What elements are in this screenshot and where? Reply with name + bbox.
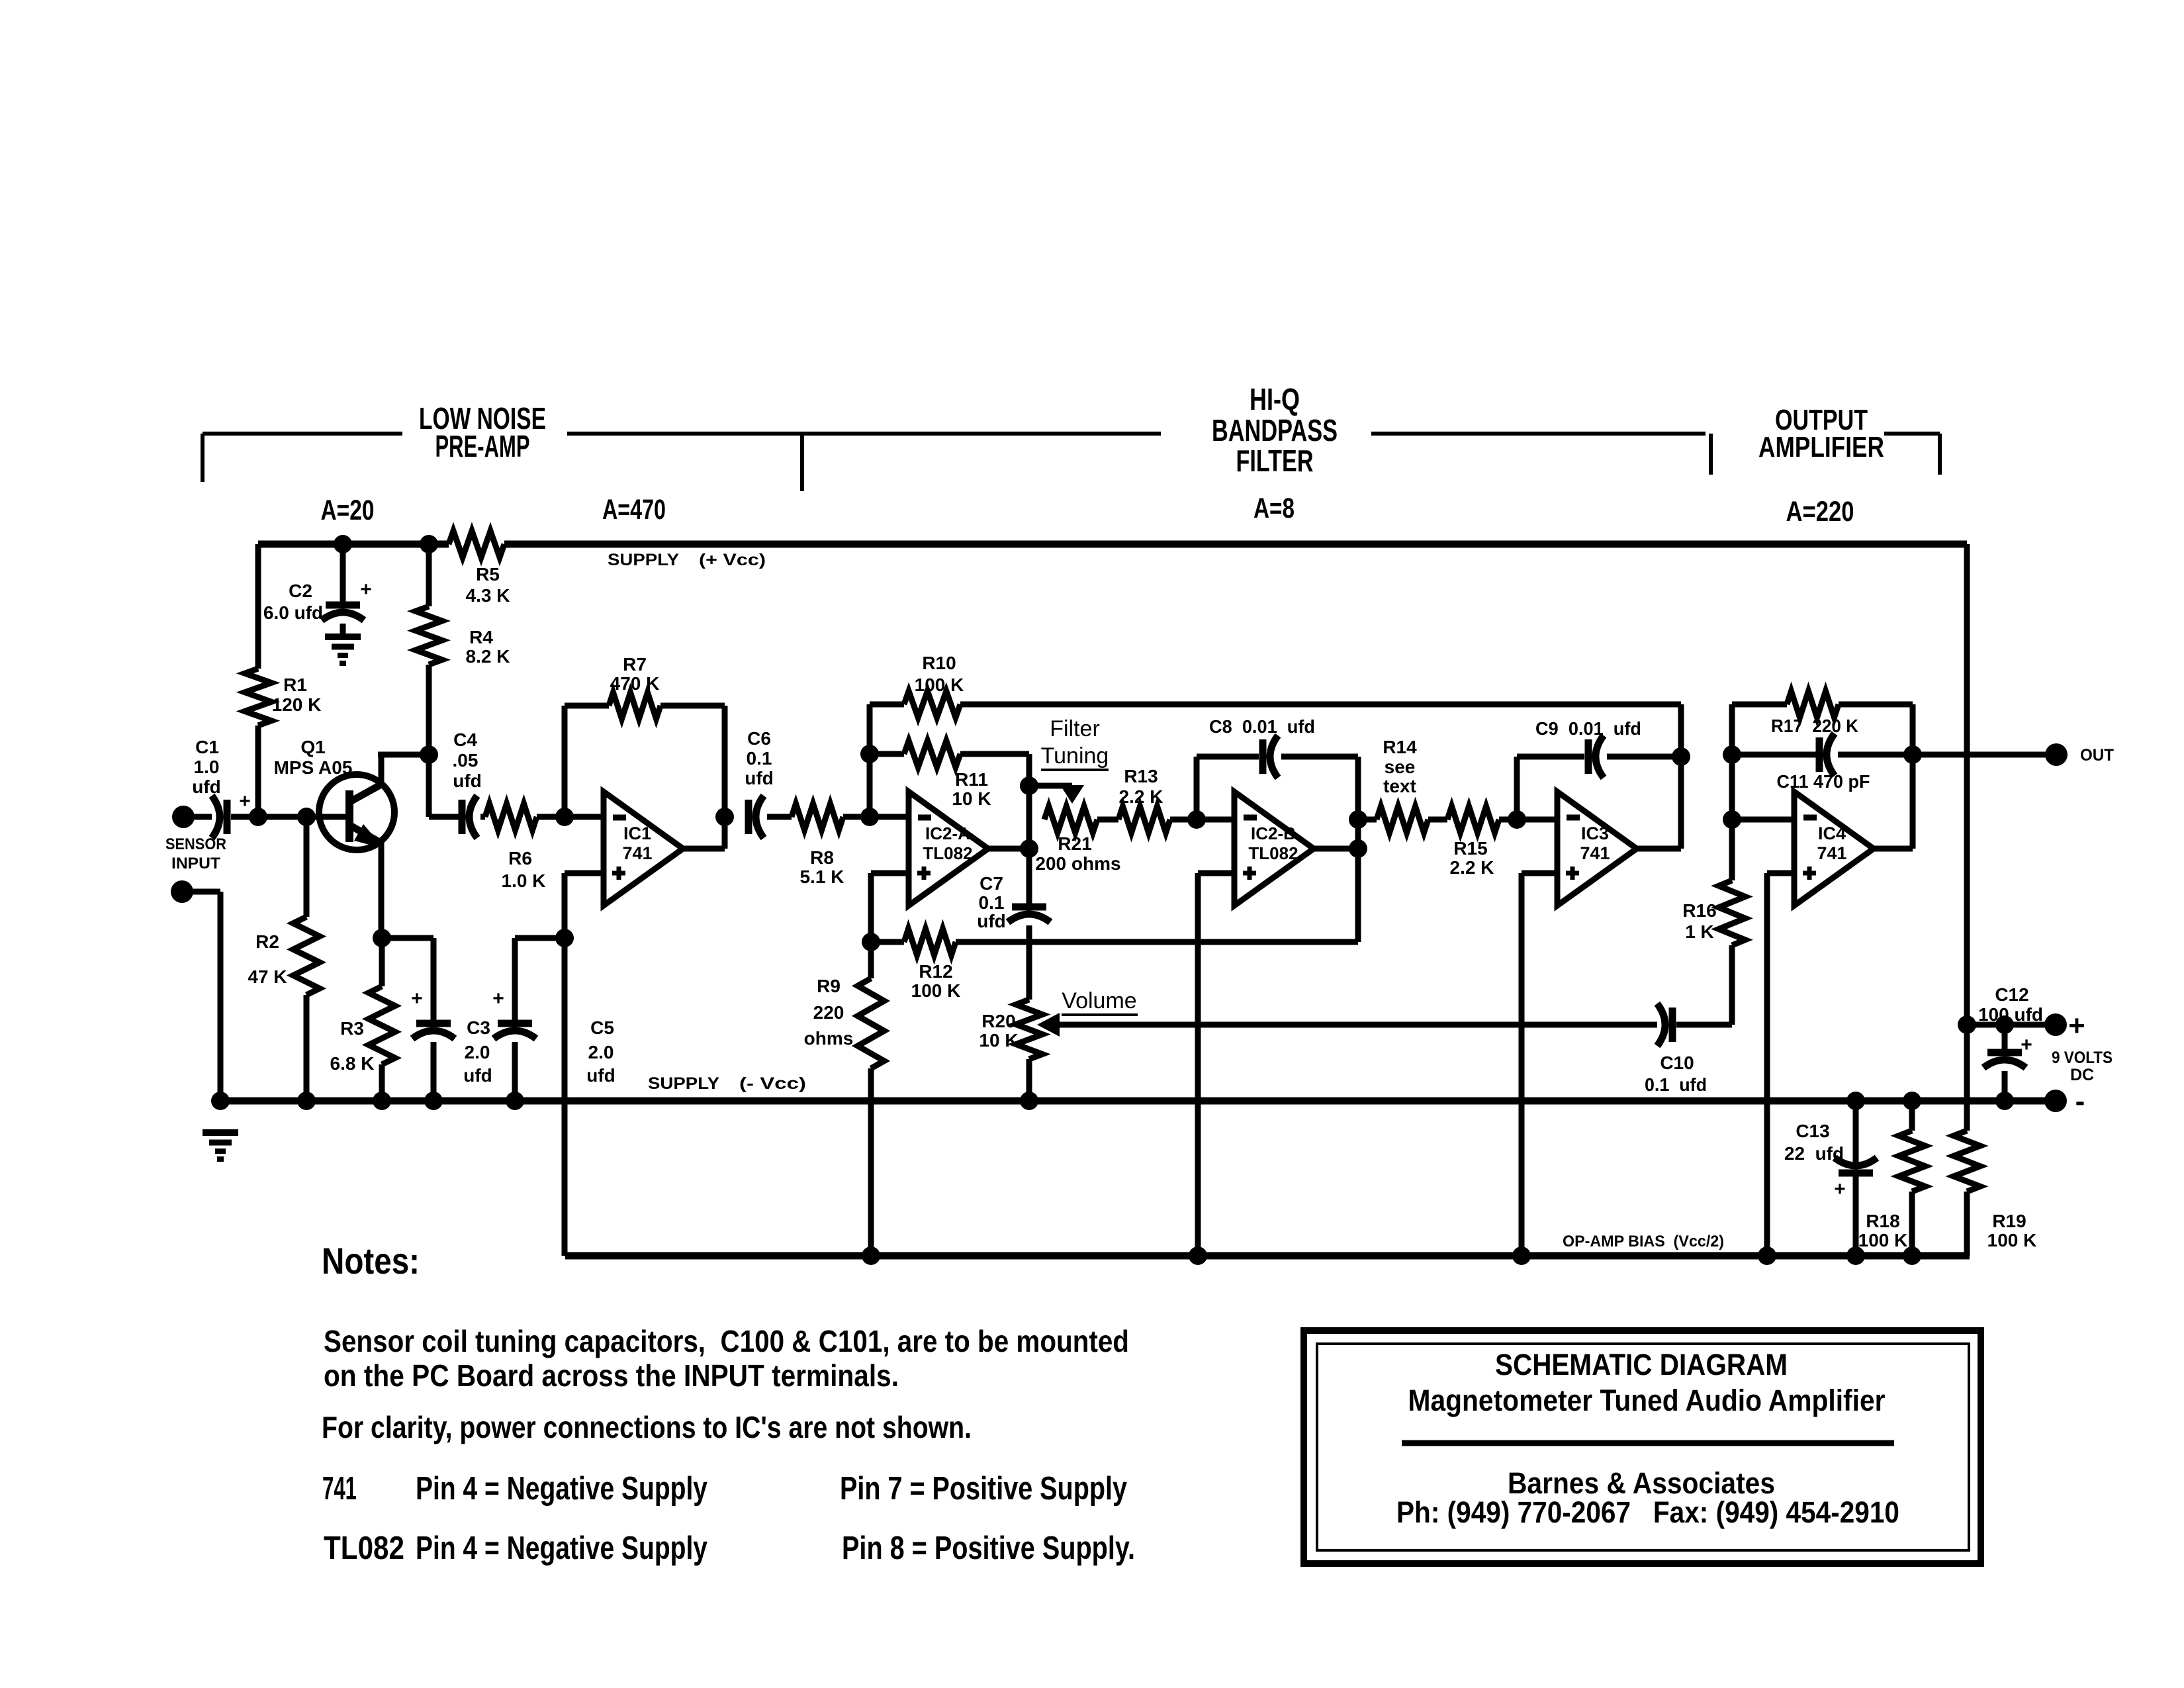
wire IC2-B output [1314,846,1358,852]
svg-text:9 VOLTS: 9 VOLTS [2052,1049,2113,1067]
svg-text:Ph: (949) 770-2067 Fax: (949: Ph: (949) 770-2067 Fax: (949) 454-2910 [1396,1495,1899,1529]
underline Tuning [1041,769,1109,771]
transistor Q1 collector lead [351,784,381,801]
svg-text:C5: C5 [590,1017,614,1038]
svg-text:C1: C1 [195,737,219,757]
wire C6 to R8 [767,814,792,820]
resistor R6 [485,804,537,830]
svg-text:R13: R13 [1124,766,1158,786]
wire C8 loop right vertical [1355,757,1361,942]
wire volume wiper line [1058,1022,1657,1028]
svg-text:SCHEMATIC DIAGRAM: SCHEMATIC DIAGRAM [1495,1348,1788,1382]
resistor R14 [1377,806,1428,833]
svg-text:text: text [1383,776,1416,796]
op-amp IC4 [1794,792,1874,906]
svg-text:ufd: ufd [453,771,482,791]
wire C2 to ground [340,624,346,637]
wire IC2-A + vertical [868,873,874,942]
capacitor C13 [1839,1170,1873,1177]
resistor R10 [904,691,960,718]
svg-text:470 K: 470 K [610,673,660,694]
section bracket line (pre-amp to filter) [567,432,1161,436]
wire IC2-A noninverting input [871,870,909,876]
op-amp IC3 [1557,792,1637,906]
wire IC4 output [1874,846,1913,852]
svg-text:ufd: ufd [586,1065,615,1086]
junction node collector/R4/C4 [420,745,438,764]
wire R12 line left [871,939,904,945]
svg-text:A=470: A=470 [602,494,666,526]
wire R7 loop top right [660,703,725,709]
svg-text:5.1 K: 5.1 K [800,867,844,887]
capacitor C5 [498,1020,532,1027]
svg-text:Volume: Volume [1062,988,1136,1013]
svg-text:R3: R3 [340,1018,364,1039]
svg-text:Pin 4 = Negative Supply: Pin 4 = Negative Supply [416,1471,707,1507]
resistor R11 [904,741,960,767]
wire IC4 + down to bias [1764,873,1770,1256]
title divider line [1402,1440,1894,1446]
transistor Q1 emitter lead [351,826,381,843]
junction dot R9 at bias rail [862,1246,880,1265]
svg-text:ufd: ufd [745,768,774,788]
resistor R19 [1954,1131,1980,1192]
wire R1 to input line [255,726,261,817]
resistor R13 [1118,806,1170,833]
svg-text:C13: C13 [1796,1121,1829,1141]
section bracket right tick [1938,434,1942,475]
svg-text:INPUT: INPUT [171,855,220,872]
capacitor C3 bottom wire [431,1042,437,1101]
capacitor C4 [459,800,466,834]
junction dot R3 at -rail [373,1092,391,1110]
resistor R3 bottom wire [379,1064,385,1101]
svg-text:-: - [2075,1085,2085,1117]
svg-text:6.8 K: 6.8 K [330,1053,375,1074]
wire op-amp bias rail [565,1252,1970,1260]
svg-text:R8: R8 [810,847,834,868]
svg-text:1.0: 1.0 [194,757,220,777]
wire R16 top lead [1729,820,1735,880]
svg-text:100 K: 100 K [1987,1230,2037,1250]
svg-text:+: + [1834,1178,1846,1200]
wire R17 loop left vertical [1729,704,1735,820]
svg-text:TL082: TL082 [923,843,972,863]
junction node R21 wiper tap [1020,776,1038,795]
svg-text:C8 0.01 ufd: C8 0.01 ufd [1209,716,1315,737]
svg-text:R17 220 K: R17 220 K [1771,716,1858,736]
wire C2 branch [340,544,346,602]
wire collector to C4 node [378,752,429,758]
wire battery + line [1967,1022,2056,1028]
wire R8 to IC2-A inv node [843,814,909,820]
wire IC2-A output vertical [1026,754,1032,904]
wire C4 to R6 [480,814,485,820]
svg-text:(+ Vcc): (+ Vcc) [699,551,766,569]
wire R6 to IC1 inv node [537,814,604,820]
junction node IC2-A inverting input [860,808,879,826]
resistor R9 [858,978,884,1068]
svg-text:Pin 8 = Positive Supply.: Pin 8 = Positive Supply. [842,1530,1135,1566]
wire R7 loop left vertical [562,706,568,817]
op-amp IC2-B [1234,792,1314,906]
wire R17 loop top right [1839,702,1913,708]
svg-text:+: + [492,988,504,1009]
svg-text:R12: R12 [919,961,952,982]
wire emitter node to C3 [382,935,433,941]
resistor R1 [245,669,271,726]
node SENSOR INPUT terminal 1 [172,806,195,828]
capacitor C5 bottom wire [512,1042,518,1101]
wire C9 line right [1607,754,1681,760]
wire C9 line left [1517,754,1584,760]
svg-text:741: 741 [322,1471,357,1507]
junction node IC3 inverting input [1508,810,1526,829]
svg-text:on the PC Board across the INP: on the PC Board across the INPUT termina… [324,1358,899,1393]
junction node IC1 inverting input [555,808,574,826]
svg-text:220: 220 [813,1002,844,1023]
svg-text:FILTER: FILTER [1236,444,1314,478]
wire R7 loop right vertical [722,706,728,849]
svg-text:IC3: IC3 [1581,823,1609,843]
wire R18 bottom lead [1909,1192,1915,1256]
junction dot C2 branch on +rail [334,535,352,553]
resistor R15 [1447,806,1499,833]
svg-text:100 ufd: 100 ufd [1978,1004,2043,1025]
junction dot R2 at -rail [297,1092,316,1110]
wire C8 line left [1197,754,1259,760]
svg-text:For clarity, power connections: For clarity, power connections to IC's a… [322,1410,972,1444]
junction dot C13 at bias rail [1846,1246,1865,1265]
svg-text:see: see [1385,757,1416,777]
junction node IC2-B output [1349,839,1367,858]
section bracket tick before output amp [1709,434,1713,475]
junction dot C13 top at -rail [1846,1092,1865,1110]
junction node R1 bottom [249,808,267,826]
wire C13 bottom lead [1853,1173,1859,1256]
wire OUT line [1913,752,2056,758]
wire C4 corner [426,755,432,817]
wire IC2-B + down to bias [1195,873,1201,1256]
svg-text:47 K: 47 K [248,966,287,987]
ground symbol input [203,1129,238,1136]
op-amp IC1 [604,792,683,906]
capacitor C3 top wire [431,938,437,1021]
capacitor C2 [326,602,360,609]
svg-text:ufd: ufd [192,776,221,797]
svg-text:Pin 4 = Negative Supply: Pin 4 = Negative Supply [416,1530,707,1566]
junction node IC4 inverting input [1723,810,1741,829]
svg-text:Filter: Filter [1050,716,1100,741]
wire R13 to IC2-B inv node [1170,817,1234,823]
svg-text:2.2 K: 2.2 K [1450,857,1494,878]
wire IC1 output [683,846,725,852]
section bracket left tick [201,434,205,482]
wire R19 top lead [1964,1025,1970,1131]
svg-text:IC1: IC1 [623,823,651,843]
svg-text:10 K: 10 K [979,1030,1018,1051]
svg-text:4.3 K: 4.3 K [466,585,510,606]
svg-text:(- Vcc): (- Vcc) [739,1074,806,1093]
svg-text:R21: R21 [1058,833,1091,854]
capacitor C1 [224,800,231,834]
wire IC3 + down to bias [1519,873,1525,1256]
wire R9 to bias rail [868,1068,874,1256]
svg-text:R7: R7 [623,654,647,675]
resistor R17 [1787,691,1839,718]
svg-text:741: 741 [1817,843,1846,863]
junction node C11 left [1723,745,1741,764]
resistor R18 [1899,1131,1925,1192]
svg-text:C10: C10 [1660,1053,1694,1073]
wire -Vcc supply rail [220,1098,2056,1105]
wire C5 branch [515,935,565,941]
wire IC4 noninverting input [1767,870,1794,876]
capacitor C12 [1987,1049,2022,1056]
svg-text:R14: R14 [1383,737,1417,757]
wire C7 to R20 [1026,925,1032,1000]
wire R12 line to IC2-B output loop [956,939,1358,945]
junction dot input ground at -rail [211,1092,230,1110]
resistor R4 [416,606,442,665]
svg-text:OUT: OUT [2080,746,2114,765]
wire input to C1 [183,814,212,820]
svg-text:Magnetometer Tuned Audio Ampli: Magnetometer Tuned Audio Amplifier [1408,1383,1886,1417]
node OUT terminal [2045,743,2068,766]
resistor R3 top wire [379,938,385,986]
svg-text:+: + [2068,1009,2085,1042]
svg-text:IC4: IC4 [1818,823,1846,843]
wire IC4 inverting input [1732,817,1794,823]
wire R14 line left [1358,817,1377,823]
wire R11 line right [960,751,1029,757]
transistor Q1 circle [319,774,394,850]
junction dot R18 at bias rail [1903,1246,1921,1265]
svg-text:AMPLIFIER: AMPLIFIER [1758,431,1884,463]
wire R21 to R13 [1097,817,1118,823]
wire +Vcc supply rail [258,541,449,548]
junction node C5 tap [555,929,574,947]
resistor R7 [609,692,660,719]
svg-text:R4: R4 [469,627,493,647]
svg-text:SUPPLY: SUPPLY [648,1074,719,1093]
svg-text:R16: R16 [1682,900,1716,921]
resistor R12 [904,929,956,955]
svg-text:C9 0.01 ufd: C9 0.01 ufd [1535,718,1641,739]
svg-text:R9: R9 [817,976,841,996]
svg-text:SENSOR: SENSOR [165,835,226,853]
junction dot IC2-B + at bias rail [1189,1246,1207,1265]
wire IC3 noninverting input [1522,870,1557,876]
junction dot R20 at -rail [1020,1092,1038,1110]
svg-text:TL082: TL082 [324,1530,404,1566]
node SENSOR INPUT terminal 2 [171,880,193,903]
resistor R16 [1719,880,1745,945]
capacitor C6 [745,800,752,834]
wire R18 top lead [1909,1101,1915,1131]
wire input terminal 2 to ground drop [182,889,220,895]
resistor R2 [293,917,320,995]
capacitor C7 [1012,904,1046,911]
wire R17 loop top left [1732,702,1787,708]
wire IC1 + down to bias [562,873,568,1256]
svg-text:1.0 K: 1.0 K [502,870,546,891]
svg-text:Pin 7 = Positive Supply: Pin 7 = Positive Supply [840,1471,1127,1507]
svg-text:C3: C3 [467,1017,490,1038]
svg-text:+: + [239,790,251,812]
svg-text:2.0: 2.0 [588,1042,614,1062]
svg-text:Notes:: Notes: [322,1240,420,1282]
section bracket line (low noise pre-amp) [203,432,402,436]
wire +rail corner down to R1 [255,544,261,669]
svg-text:.05: .05 [453,750,478,771]
svg-text:8.2 K: 8.2 K [466,646,510,667]
svg-text:IC2-A: IC2-A [925,823,970,843]
wire C8 line right [1281,754,1358,760]
wire R14 to R15 [1428,817,1447,823]
svg-text:1 K: 1 K [1685,921,1714,942]
svg-text:R11: R11 [955,769,988,790]
wire IC1 noninverting input [565,870,604,876]
svg-text:ufd: ufd [463,1065,492,1086]
svg-text:10 K: 10 K [952,788,991,809]
svg-text:6.0 ufd: 6.0 ufd [263,602,323,623]
wire C8 loop left vertical [1194,757,1200,820]
wire C11 line right [1838,752,1913,758]
wire C1 to base node [231,814,348,820]
wire R10 line to IC3 output loop [960,702,1681,708]
transistor Q1 base bar [345,790,353,842]
wire R10 line left [870,702,904,708]
wire R11 line left [870,751,904,757]
svg-text:Tuning: Tuning [1041,743,1109,769]
svg-text:100 K: 100 K [1858,1230,1908,1250]
junction dot C12 at -rail [1995,1092,2014,1110]
svg-text:ohms: ohms [804,1028,854,1049]
wire IC2-A output [988,846,1029,852]
wire R16 bottom lead [1729,945,1735,1025]
junction dot IC4 + at bias rail [1758,1246,1776,1265]
svg-text:R20: R20 [981,1011,1015,1031]
svg-text:MPS A05: MPS A05 [274,757,353,778]
resistor R4 bottom wire [426,665,432,755]
svg-text:IC2-B: IC2-B [1251,823,1296,843]
wire R7 loop top left [565,703,609,709]
junction node IC2-A output [1020,839,1038,858]
arrow R20 volume wiper [1037,1013,1060,1037]
wire R10/R11 left vertical [867,704,873,817]
svg-text:C6: C6 [747,728,771,749]
wire C12 bottom lead [2002,1071,2008,1101]
junction node R11 corner [860,745,879,763]
svg-text:BANDPASS: BANDPASS [1212,413,1338,447]
svg-text:C11 470 pF: C11 470 pF [1777,771,1870,792]
junction node R14 tap [1349,810,1367,829]
junction node IC4 output loop at OUT [1903,745,1922,764]
svg-text:C7: C7 [979,873,1003,894]
wire IC2-B noninverting input [1198,870,1234,876]
resistor R9 top wire [868,942,874,978]
svg-text:SUPPLY: SUPPLY [608,551,679,569]
junction dot C3 at -rail [424,1092,443,1110]
svg-text:R19: R19 [1992,1211,2026,1231]
wire IC3 output [1637,846,1681,852]
svg-text:0.1: 0.1 [747,748,772,769]
svg-text:120 K: 120 K [272,694,322,715]
title block outer border [1304,1331,1981,1564]
section bracket line (right of output label) [1884,432,1940,436]
svg-text:0.1: 0.1 [979,892,1005,913]
svg-text:R5: R5 [476,564,500,585]
wire R15 to IC3 inv node [1499,817,1557,823]
junction dot R4/R5 branch on +rail [420,535,438,553]
capacitor C9 [1585,739,1592,774]
junction node C9 at output loop [1672,747,1690,766]
svg-text:+: + [360,579,372,600]
svg-text:Q1: Q1 [300,737,325,757]
svg-text:100 K: 100 K [911,980,961,1001]
svg-text:R15: R15 [1453,838,1487,859]
svg-text:0.1 ufd: 0.1 ufd [1645,1074,1707,1095]
wire C11 line left [1732,752,1817,758]
svg-text:R1: R1 [283,675,307,695]
wire C10 to R16 corner [1676,1022,1732,1028]
resistor R2 bottom wire [304,995,310,1101]
node battery - terminal [2044,1090,2067,1112]
svg-text:C2: C2 [289,581,312,601]
resistor R8 [792,804,843,830]
svg-text:A=220: A=220 [1786,496,1854,528]
node battery + terminal [2044,1013,2067,1036]
svg-text:2.0: 2.0 [465,1042,490,1062]
resistor R4 top wire [426,544,432,606]
op-amp IC2-A [909,792,988,906]
svg-text:741: 741 [1580,843,1610,863]
wire R20 bottom [1026,1059,1032,1101]
svg-text:ufd: ufd [977,911,1006,931]
svg-text:2.2 K: 2.2 K [1119,786,1163,807]
svg-text:R6: R6 [508,848,532,868]
svg-text:R2: R2 [255,931,279,952]
wire IC3 output loop vertical [1678,704,1684,849]
capacitor C3 [416,1020,451,1027]
wire C9 loop left vertical [1514,757,1520,820]
svg-text:+: + [2021,1034,2032,1056]
wire C13 top lead [1853,1101,1859,1162]
capacitor C8 [1259,739,1267,774]
svg-text:PRE-AMP: PRE-AMP [435,429,530,463]
svg-text:100 K: 100 K [915,675,964,695]
potentiometer R21 [1044,806,1097,833]
potentiometer R20 [1016,1000,1042,1059]
junction dot IC3 + at bias rail [1512,1246,1531,1265]
resistor R5 [449,531,504,557]
junction node C12 top [1995,1015,2014,1034]
ground symbol C2 [325,633,361,640]
section bracket line (filter to output) [1371,432,1706,436]
junction node emitter/R3/C3 [373,929,391,947]
title block inner border [1317,1344,1969,1550]
svg-text:A=20: A=20 [321,494,375,526]
junction dot C5 at -rail [506,1092,524,1110]
section bracket tick at filter boundary [800,434,804,491]
svg-text:+: + [411,988,423,1009]
resistor R3 [369,986,395,1064]
wire R21 wiper [1029,783,1072,789]
junction dot R18 top at -rail [1903,1092,1921,1110]
wire +Vcc down right side [1964,544,1970,1025]
svg-text:22 ufd: 22 ufd [1784,1143,1844,1164]
